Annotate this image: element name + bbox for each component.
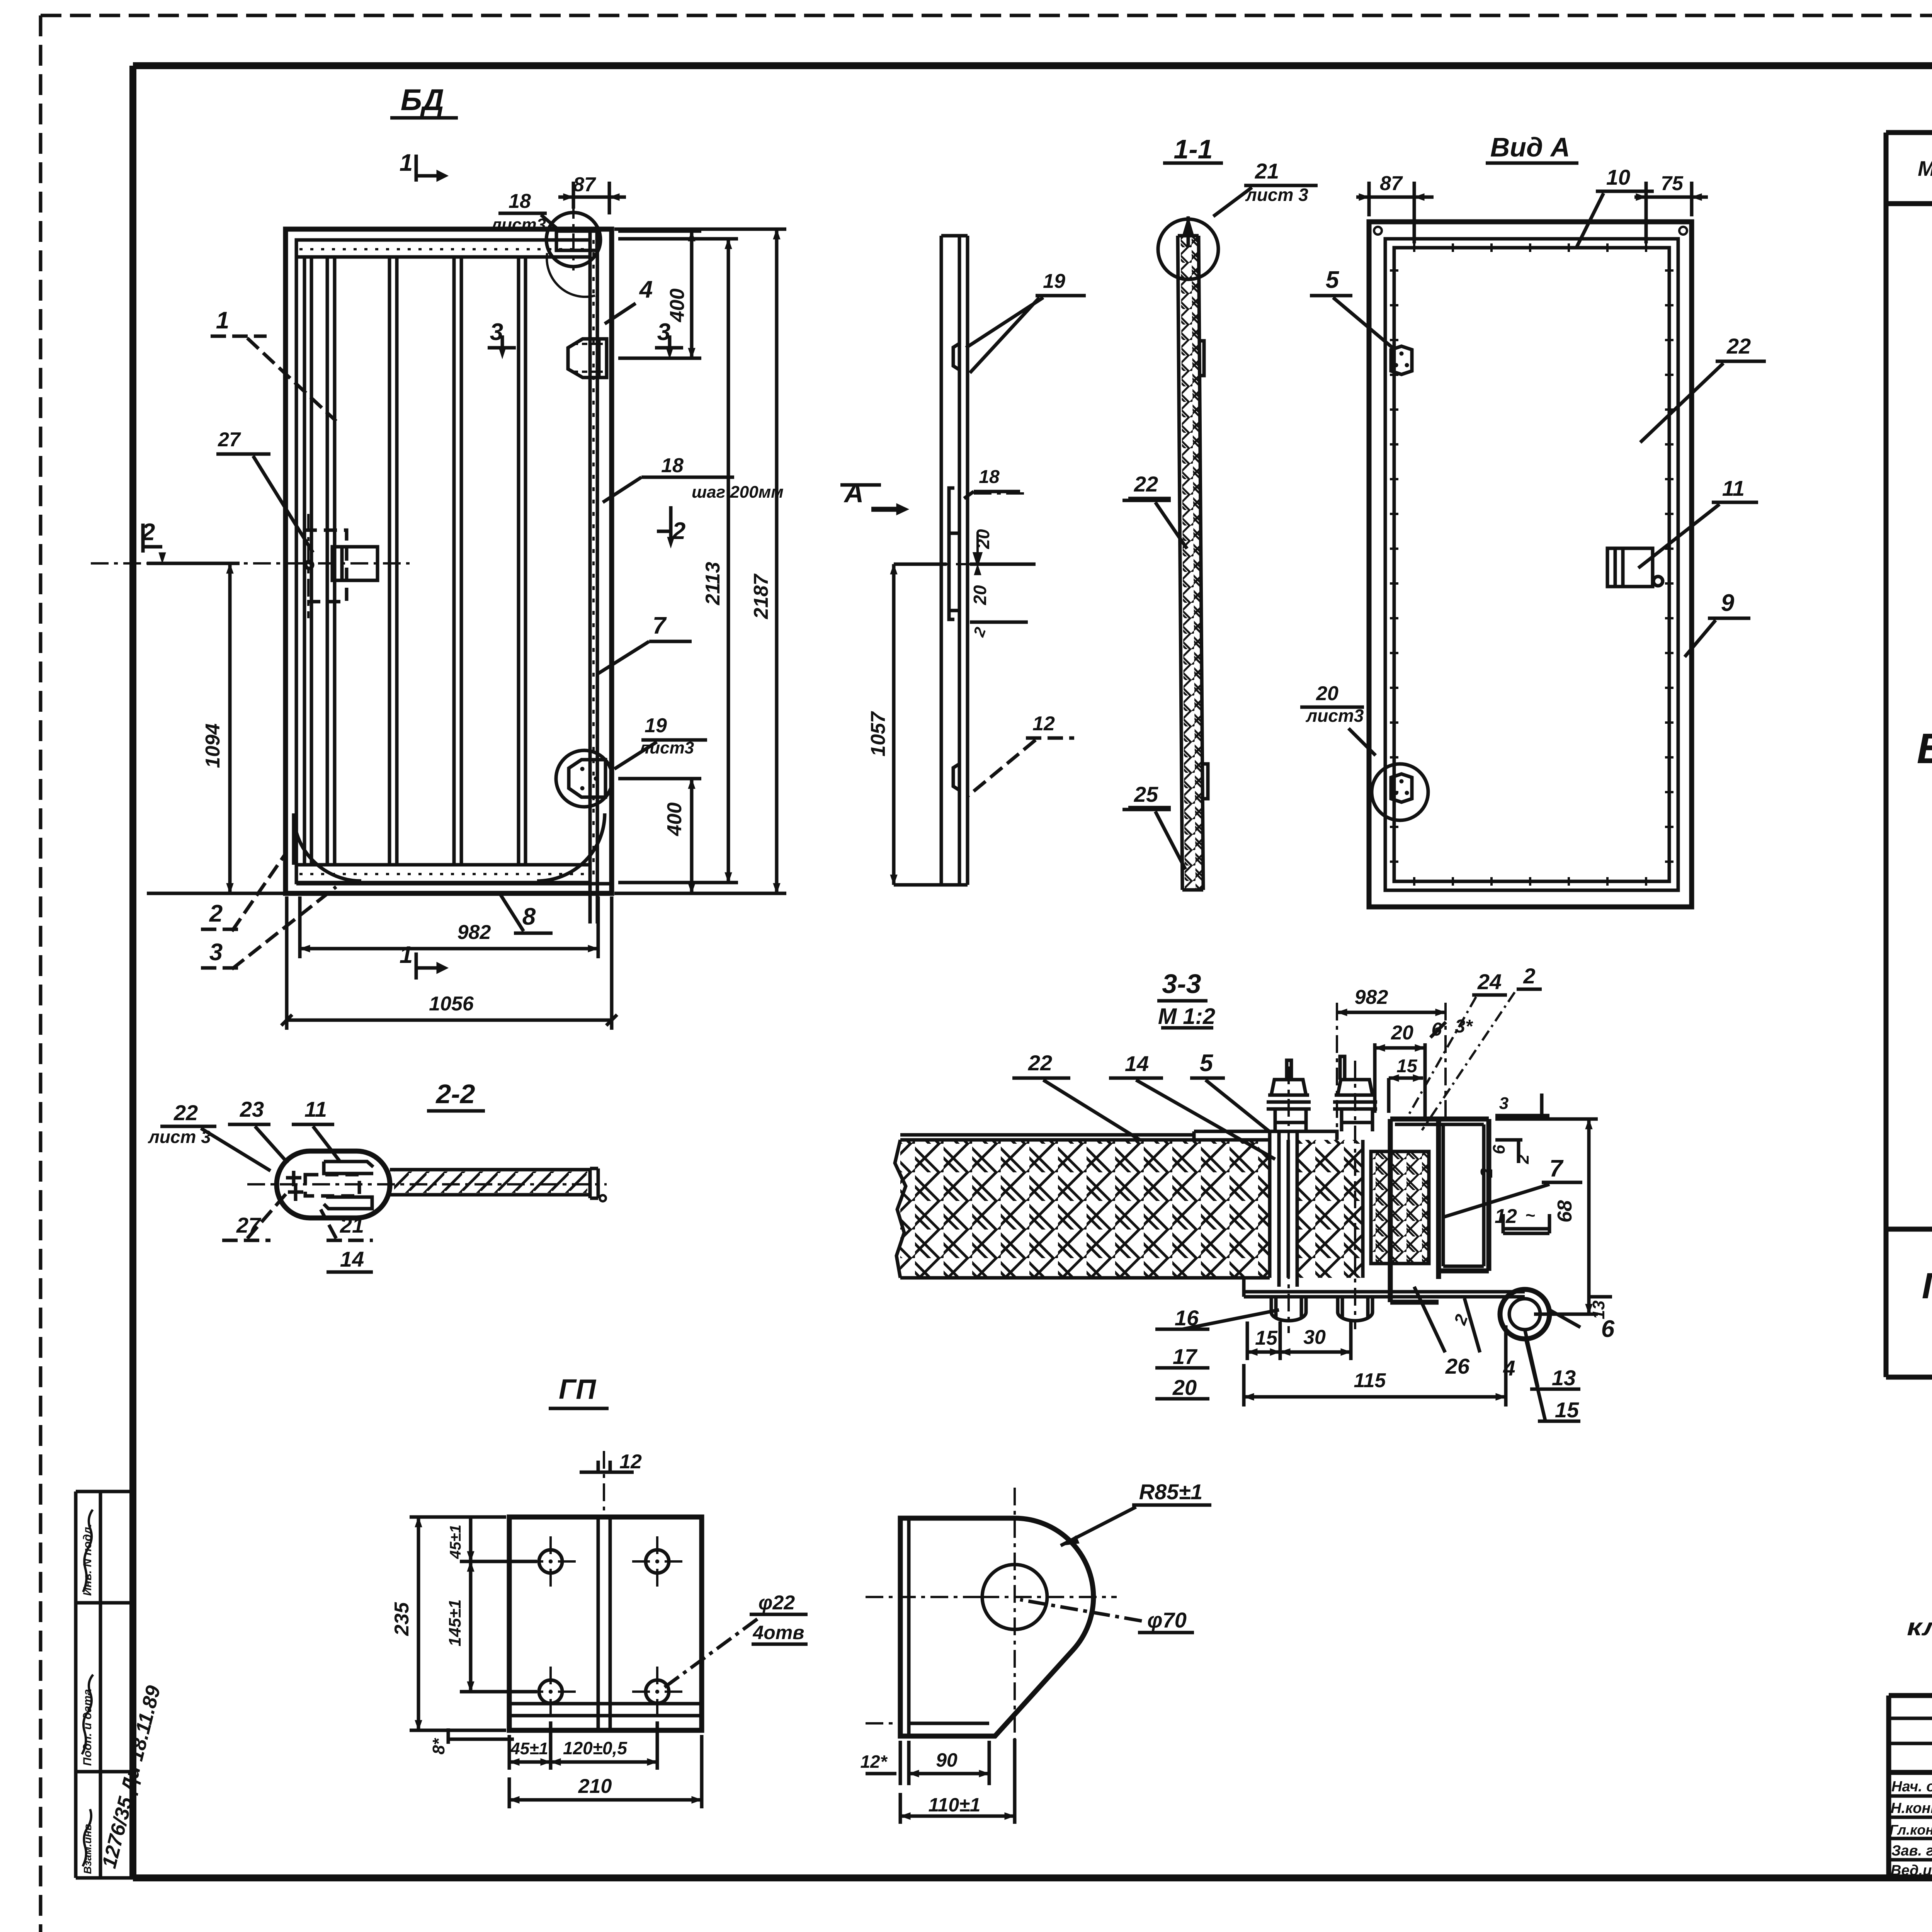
svg-text:ГП: ГП bbox=[559, 1374, 597, 1405]
rivet tick marks along inner frame bbox=[1390, 270, 1398, 862]
section 3-3 bbox=[895, 989, 1612, 1422]
16/17/20 stack bbox=[1155, 1310, 1279, 1399]
A view arrow bbox=[871, 507, 896, 512]
svg-text:2: 2 bbox=[1523, 964, 1535, 988]
13 15 leaders bottom right bbox=[1525, 1329, 1546, 1422]
door edge side view bbox=[840, 236, 1086, 885]
lock bar bbox=[949, 488, 954, 619]
svg-text:400: 400 bbox=[663, 803, 686, 837]
svg-text:шаг 200мм: шаг 200мм bbox=[692, 483, 784, 502]
middle hinge (pentagon) bbox=[568, 339, 607, 378]
specification table bbox=[1886, 133, 1932, 1377]
svg-text:115: 115 bbox=[1354, 1369, 1386, 1392]
small bolt cross inside oval bbox=[286, 1171, 303, 1201]
12 dim top bbox=[603, 1451, 605, 1519]
bolt centerlines bbox=[1289, 1061, 1355, 1333]
labels bbox=[160, 1126, 270, 1171]
top hinge plate bbox=[556, 231, 597, 250]
svg-text:1056: 1056 bbox=[429, 993, 474, 1015]
svg-text:20: 20 bbox=[970, 585, 990, 605]
6 leader right bbox=[1549, 1310, 1580, 1327]
foam block speckle bbox=[1371, 1151, 1429, 1264]
svg-text:φ22: φ22 bbox=[759, 1592, 795, 1614]
2113 dim bbox=[618, 239, 738, 883]
11 leader bbox=[1638, 502, 1758, 568]
svg-text:90: 90 bbox=[936, 1749, 957, 1771]
svg-text:25: 25 bbox=[1134, 782, 1158, 806]
400 bottom dim bbox=[618, 779, 701, 893]
bumps right bbox=[1199, 341, 1208, 799]
centerline bbox=[247, 1183, 607, 1185]
centerline through lock bbox=[91, 562, 410, 565]
svg-text:Вид А: Вид А bbox=[1490, 132, 1570, 162]
svg-text:2: 2 bbox=[209, 900, 223, 927]
rivet bumps bbox=[953, 344, 959, 790]
svg-text:2113: 2113 bbox=[702, 562, 724, 605]
svg-text:12: 12 bbox=[1032, 713, 1055, 735]
7 leader bbox=[1443, 1182, 1582, 1217]
svg-text:клей 88-Н по ТУ38 1051061-: клей 88-Н по ТУ38 1051061-87 bbox=[1907, 1614, 1932, 1641]
svg-text:12: 12 bbox=[619, 1451, 642, 1473]
svg-text:2: 2 bbox=[141, 519, 155, 546]
svg-text:5: 5 bbox=[1326, 267, 1340, 293]
7 label leader bbox=[597, 641, 692, 674]
inner hatched block (brusok) bbox=[1297, 1140, 1363, 1278]
svg-text:16: 16 bbox=[1175, 1306, 1199, 1330]
8 label bbox=[500, 895, 553, 933]
svg-text:4отв: 4отв bbox=[752, 1622, 804, 1643]
svg-text:2: 2 bbox=[1477, 1168, 1496, 1178]
squiggle handwriting in stamp bbox=[82, 1510, 93, 1866]
centerline at lock height bbox=[923, 563, 1012, 565]
bar to the right with hatch bbox=[390, 1168, 598, 1198]
svg-text:18: 18 bbox=[979, 467, 1000, 487]
top bolts bbox=[1267, 1056, 1377, 1131]
svg-text:45±1: 45±1 bbox=[447, 1525, 464, 1560]
svg-text:Марка: Марка bbox=[1918, 156, 1932, 180]
svg-text:21: 21 bbox=[1255, 159, 1279, 183]
2 section mark left bbox=[143, 524, 162, 553]
left channel pair bbox=[304, 257, 311, 865]
svg-text:400: 400 bbox=[666, 289, 689, 323]
svg-text:3-3: 3-3 bbox=[1162, 969, 1201, 999]
svg-text:Гл.констр: Гл.констр bbox=[1889, 1822, 1932, 1838]
bottom hinge circle detail bbox=[556, 750, 612, 807]
bottom dims 12 90 110 bbox=[866, 1741, 989, 1785]
1094 dim bbox=[147, 563, 286, 893]
1 label left with dash leader bbox=[211, 336, 336, 421]
svg-text:7: 7 bbox=[1549, 1155, 1564, 1182]
C channels inside bbox=[324, 1162, 373, 1209]
svg-text:27: 27 bbox=[236, 1213, 262, 1237]
bottom dims 45 120 210 bbox=[509, 1721, 657, 1770]
15|30|115 bottom dims bbox=[1247, 1321, 1351, 1360]
svg-text:30: 30 bbox=[1303, 1326, 1326, 1349]
left dims 235 / 45 / 145 / 8 bbox=[410, 1517, 506, 1730]
bottom rail lines bbox=[296, 865, 612, 884]
982 dim bottom bbox=[300, 896, 598, 958]
svg-text:6: 6 bbox=[1432, 1019, 1442, 1040]
svg-text:13: 13 bbox=[1552, 1366, 1576, 1390]
12 label leader bbox=[968, 738, 1074, 796]
bottom bolts bbox=[1271, 1297, 1372, 1321]
GP plate view bbox=[410, 1451, 808, 1808]
2187 dim bbox=[614, 229, 786, 893]
18 лист3 label top bbox=[498, 213, 556, 228]
1056 dim bottom bbox=[287, 896, 612, 1030]
lock vertical axis bbox=[307, 514, 310, 618]
svg-text:20: 20 bbox=[1391, 1022, 1413, 1044]
top-left hinge pentagon bbox=[1391, 346, 1412, 374]
title block bbox=[1889, 1696, 1932, 1878]
svg-text:27: 27 bbox=[218, 429, 241, 451]
svg-text:235: 235 bbox=[391, 1602, 413, 1636]
dimensions around door bbox=[143, 155, 786, 1030]
svg-text:3: 3 bbox=[209, 939, 223, 966]
top skin plate bbox=[1194, 1131, 1337, 1140]
section 1-1 bbox=[1122, 185, 1318, 890]
3 section marks bbox=[488, 335, 516, 348]
svg-text:лист3: лист3 bbox=[1306, 706, 1364, 726]
svg-text:1057: 1057 bbox=[867, 711, 889, 757]
svg-text:7: 7 bbox=[653, 612, 667, 639]
svg-text:10: 10 bbox=[1606, 165, 1630, 189]
door front view BD bbox=[0, 0, 0, 0]
svg-text:А: А bbox=[844, 478, 864, 508]
svg-text:19: 19 bbox=[645, 714, 667, 737]
svg-text:1-1: 1-1 bbox=[1173, 134, 1213, 164]
19 лист3 bottom label bbox=[614, 740, 707, 769]
svg-text:14: 14 bbox=[1125, 1051, 1149, 1076]
svg-text:14: 14 bbox=[340, 1247, 364, 1271]
26 4 leaders bbox=[1414, 1287, 1480, 1352]
svg-text:φ70: φ70 bbox=[1147, 1608, 1187, 1632]
svg-text:982: 982 bbox=[457, 921, 491, 944]
68 dim right bbox=[1495, 1119, 1598, 1314]
svg-text:68: 68 bbox=[1554, 1200, 1576, 1223]
svg-text:45±1: 45±1 bbox=[510, 1739, 548, 1758]
svg-text:4: 4 bbox=[1503, 1356, 1515, 1380]
svg-text:2-2: 2-2 bbox=[435, 1079, 475, 1109]
svg-text:22: 22 bbox=[1134, 472, 1158, 496]
svg-text:12: 12 bbox=[1495, 1205, 1517, 1228]
left margin stamp boxes bbox=[76, 1492, 133, 1878]
svg-text:лист 3: лист 3 bbox=[148, 1127, 211, 1147]
svg-text:87: 87 bbox=[1380, 172, 1403, 195]
labels bbox=[1213, 185, 1318, 216]
svg-text:лист 3: лист 3 bbox=[1245, 185, 1308, 205]
section mark 1 top bbox=[416, 155, 437, 182]
svg-text:БД: БД bbox=[1917, 725, 1932, 772]
22 leader bbox=[1640, 361, 1766, 442]
svg-text:24: 24 bbox=[1477, 969, 1502, 994]
svg-text:23: 23 bbox=[240, 1097, 264, 1121]
top hinge detail circle bbox=[546, 213, 600, 267]
svg-text:15: 15 bbox=[1555, 1398, 1579, 1422]
svg-text:М 1:2: М 1:2 bbox=[1158, 1004, 1215, 1029]
lock assembly left middle bbox=[304, 530, 347, 602]
door leaf outer rect bbox=[286, 229, 612, 893]
svg-text:лист3.: лист3. bbox=[490, 215, 551, 234]
svg-text:22: 22 bbox=[1726, 334, 1751, 358]
2 section right bbox=[657, 506, 671, 537]
GP side view bbox=[866, 1488, 1211, 1824]
svg-text:Нач. отд: Нач. отд bbox=[1891, 1779, 1932, 1795]
svg-text:R85±1: R85±1 bbox=[1139, 1480, 1203, 1504]
svg-text:~: ~ bbox=[1525, 1206, 1535, 1225]
notes text bbox=[1907, 1488, 1932, 1641]
svg-text:6: 6 bbox=[1601, 1316, 1615, 1342]
svg-text:11: 11 bbox=[1722, 476, 1745, 500]
10 leader bbox=[1577, 191, 1654, 247]
svg-text:15: 15 bbox=[1396, 1056, 1418, 1077]
svg-text:1: 1 bbox=[400, 942, 413, 968]
svg-text:18: 18 bbox=[661, 454, 684, 477]
bottom 2 3 labels bbox=[201, 852, 287, 931]
R85 label bbox=[1061, 1505, 1211, 1546]
svg-text:145±1: 145±1 bbox=[446, 1599, 464, 1646]
svg-text:лист3: лист3 bbox=[638, 738, 694, 757]
top rail inner line bbox=[296, 255, 590, 259]
svg-text:75: 75 bbox=[1661, 172, 1684, 195]
87 dim top bbox=[558, 182, 626, 214]
door inner frame rect bbox=[296, 240, 590, 883]
section mark 1 bottom bbox=[416, 952, 437, 980]
svg-text:Зав. гр: Зав. гр bbox=[1891, 1843, 1932, 1859]
svg-text:15: 15 bbox=[1255, 1327, 1278, 1349]
svg-text:ГП: ГП bbox=[1922, 1265, 1932, 1306]
hinge-side channel bbox=[590, 229, 597, 923]
svg-text:22: 22 bbox=[1028, 1051, 1052, 1075]
svg-text:26: 26 bbox=[1445, 1354, 1470, 1378]
svg-text:Вед.инж: Вед.инж bbox=[1891, 1862, 1932, 1879]
right small dims 3 6 2 2 bbox=[1495, 1094, 1549, 1163]
fi70 bbox=[1020, 1600, 1142, 1621]
svg-text:2: 2 bbox=[1514, 1154, 1532, 1164]
22 14 5 leaders top bbox=[1012, 1078, 1140, 1140]
sandwich panel crosshatch bbox=[900, 1140, 1270, 1278]
bottom hinge circle bbox=[1372, 764, 1428, 820]
20 лист3 label bbox=[1300, 707, 1376, 755]
18 шаг200мм label bbox=[603, 477, 734, 502]
svg-text:17: 17 bbox=[1173, 1344, 1198, 1369]
400 top dim bbox=[618, 231, 701, 358]
dims 20 6 3 bbox=[1375, 1043, 1425, 1117]
vertical stiffeners (pairs) bbox=[327, 257, 526, 865]
svg-text:8*: 8* bbox=[429, 1738, 448, 1754]
svg-text:11: 11 bbox=[304, 1097, 327, 1121]
svg-text:9: 9 bbox=[1721, 590, 1735, 616]
5 leader bbox=[1310, 296, 1395, 350]
svg-text:1: 1 bbox=[400, 150, 413, 176]
1057 dim bbox=[894, 564, 947, 885]
pipe circle bbox=[1500, 1289, 1549, 1339]
svg-text:19: 19 bbox=[1043, 270, 1065, 293]
svg-text:982: 982 bbox=[1355, 986, 1388, 1009]
svg-text:8: 8 bbox=[522, 903, 536, 930]
svg-text:12*: 12* bbox=[860, 1752, 888, 1772]
centerline vertical through top hinge bbox=[572, 201, 575, 270]
svg-text:3: 3 bbox=[490, 319, 503, 345]
12 dim at pipe bbox=[1503, 1214, 1549, 1233]
svg-text:4: 4 bbox=[639, 276, 653, 303]
svg-text:3*: 3* bbox=[1455, 1016, 1473, 1037]
svg-text:1094: 1094 bbox=[202, 723, 224, 768]
bottom corner arcs bbox=[294, 813, 361, 881]
svg-text:110±1: 110±1 bbox=[929, 1794, 981, 1816]
svg-text:2187: 2187 bbox=[750, 573, 772, 619]
svg-text:18: 18 bbox=[509, 190, 531, 213]
svg-text:21: 21 bbox=[340, 1213, 364, 1237]
27 label leader bbox=[216, 454, 313, 553]
svg-text:1: 1 bbox=[216, 307, 229, 334]
dims top: 87 and 75 bbox=[1356, 182, 1434, 243]
svg-text:3: 3 bbox=[1499, 1094, 1509, 1113]
svg-text:22: 22 bbox=[173, 1100, 198, 1125]
svg-text:3: 3 bbox=[657, 319, 670, 345]
dimension 982 top bbox=[1337, 1003, 1446, 1132]
svg-text:87: 87 bbox=[573, 173, 596, 196]
9 leader bbox=[1685, 618, 1750, 657]
corner screws bbox=[1374, 227, 1382, 235]
fi22 label leader bbox=[663, 1619, 757, 1689]
lock bbox=[1607, 548, 1653, 587]
panel edge plates (vertical) bbox=[1270, 1131, 1297, 1287]
svg-text:5: 5 bbox=[1200, 1050, 1214, 1077]
svg-text:210: 210 bbox=[578, 1775, 612, 1798]
svg-text:БД: БД bbox=[401, 83, 444, 117]
18 label + small dims right of strip bbox=[964, 492, 1020, 498]
13 dim right small bbox=[1589, 1295, 1612, 1299]
svg-text:120±0,5: 120±0,5 bbox=[563, 1738, 628, 1758]
frame channel bbox=[1390, 1119, 1439, 1302]
svg-text:20: 20 bbox=[1172, 1375, 1197, 1400]
svg-text:Н.контр: Н.контр bbox=[1891, 1800, 1932, 1816]
bottom strap bbox=[1244, 1292, 1525, 1297]
svg-text:2: 2 bbox=[672, 518, 685, 544]
19 label leaders bbox=[966, 296, 1086, 373]
svg-text:20: 20 bbox=[973, 529, 993, 549]
24 & 2 leaders bbox=[1406, 992, 1515, 1130]
detail 2-2 bbox=[160, 1124, 607, 1272]
svg-text:20: 20 bbox=[1316, 682, 1338, 705]
Vid A view bbox=[1300, 182, 1766, 907]
svg-text:6: 6 bbox=[1490, 1145, 1509, 1154]
